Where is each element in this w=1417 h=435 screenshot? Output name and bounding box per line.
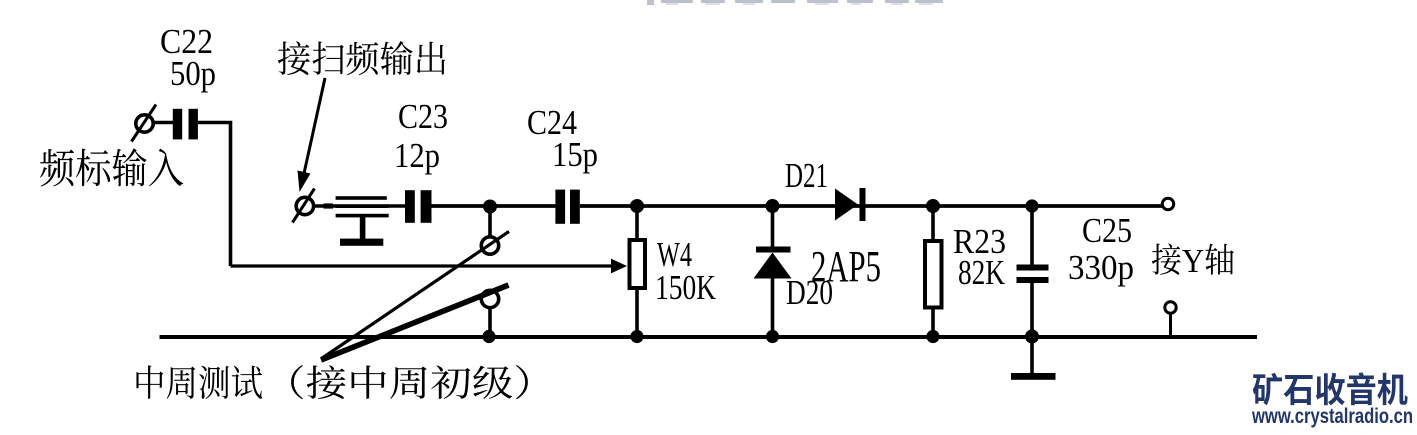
svg-text:2AP5: 2AP5: [811, 241, 881, 291]
output terminal Y-axis top: [1162, 198, 1173, 209]
node D20 bottom: [766, 330, 779, 343]
svg-text:www.crystalradio.cn: www.crystalradio.cn: [1251, 405, 1413, 428]
stub down to test terminal 1: [488, 206, 492, 237]
svg-text:接Y轴: 接Y轴: [1151, 233, 1235, 282]
resistor R23 body: [925, 241, 942, 308]
capacitor C24: [555, 190, 579, 224]
stub Y-axis bottom terminal: [1169, 313, 1172, 337]
node W4 top: [630, 199, 644, 213]
ground stem: [1030, 337, 1034, 374]
capacitor C23: [405, 190, 432, 223]
diode D21 cathode bar: [860, 188, 866, 221]
leader arrow to J2: [298, 78, 326, 192]
svg-text:330p: 330p: [1068, 248, 1134, 287]
svg-text:150K: 150K: [655, 268, 716, 307]
pointer line to test terminal 1: [322, 232, 510, 359]
wire C22 right, corner down to wiper line: [198, 123, 231, 267]
test terminal 1: [481, 237, 498, 254]
junction dot bottom at test stub: [482, 330, 495, 343]
node W4 bottom: [630, 330, 643, 343]
ground bar: [1011, 373, 1056, 380]
node R23 top: [926, 199, 940, 213]
stub terminal 2 to bottom bus: [488, 308, 492, 337]
top bus wire C24 to output terminal: [580, 204, 1163, 208]
test terminal 2: [481, 290, 498, 307]
stub D20 bottom: [771, 278, 775, 337]
pointer line to test terminal 2: [321, 285, 509, 360]
wire C23 to C24: [432, 204, 556, 208]
svg-text:50p: 50p: [170, 54, 216, 93]
terminal J2 (sweep output): [293, 189, 315, 223]
trimmer ground bar: [340, 239, 383, 246]
trimmer blob: [324, 203, 334, 208]
svg-text:12p: 12p: [394, 136, 440, 175]
diode D20 cathode bar: [756, 247, 791, 253]
diode D20 triangle: [754, 253, 792, 279]
capacitor C25 plates: [1017, 265, 1049, 284]
stub D20 top: [771, 206, 775, 248]
stub W4 top: [635, 206, 639, 240]
node at test point 1: [483, 200, 497, 214]
svg-text:82K: 82K: [958, 253, 1005, 292]
trimmer capacitor plates: [336, 196, 389, 217]
wire trimmer to C23: [388, 204, 406, 207]
svg-text:中周测试: 中周测试: [133, 355, 263, 407]
node C25 bottom: [1025, 330, 1039, 344]
svg-text:频标输入: 频标输入: [39, 136, 184, 195]
node D20 top: [766, 199, 780, 213]
svg-text:C25: C25: [1082, 211, 1132, 250]
wire J2 to trimmer: [313, 204, 336, 207]
clipped title text remnants at top: [647, 0, 943, 5]
bottom bus wire: [160, 335, 1258, 339]
node C25 top: [1025, 199, 1038, 212]
svg-text:C23: C23: [398, 97, 448, 136]
wiper feed wire with arrow into W4: [231, 259, 628, 274]
svg-text:（接中周初级）: （接中周初级）: [264, 355, 555, 407]
wire J1 to C22: [153, 121, 173, 125]
svg-text:D21: D21: [785, 156, 828, 195]
diode D21 triangle: [835, 189, 858, 221]
trimmer ground stem: [360, 217, 366, 240]
stub R23 bottom: [931, 308, 935, 338]
output terminal Y-axis bottom: [1165, 302, 1176, 313]
svg-text:接扫频输出: 接扫频输出: [277, 31, 448, 83]
potentiometer W4 body: [630, 240, 646, 288]
capacitor C22: [173, 109, 198, 140]
node R23 bottom: [926, 330, 939, 343]
stub R23 top: [931, 206, 935, 241]
stub C25 bottom: [1030, 283, 1034, 337]
stub C25 top: [1030, 206, 1034, 265]
stub W4 bottom: [635, 288, 639, 337]
terminal J1 (frequency-marker input): [132, 105, 157, 142]
svg-text:15p: 15p: [552, 135, 598, 174]
